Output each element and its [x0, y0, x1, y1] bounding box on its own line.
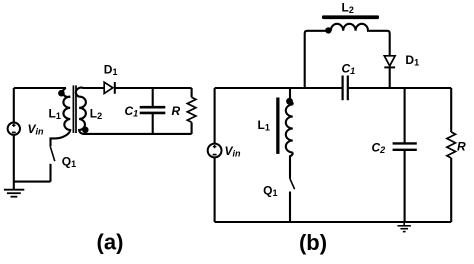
svg-text:R: R — [457, 140, 466, 154]
wire middle rail right of C1 (b) — [348, 87, 451, 89]
transformer primary winding L1 (a) — [51, 88, 71, 146]
wire bottom return from Q1 to ground node (a) — [14, 181, 51, 183]
polarity dot L1 (b) — [286, 98, 293, 105]
wire bottom rail (b) — [215, 221, 452, 223]
inductor L1 (b) — [286, 88, 293, 179]
source Vin (a) — [8, 88, 20, 190]
ground (b) — [398, 222, 411, 232]
capacitor C1 (b) — [343, 76, 348, 101]
svg-text:(b): (b) — [299, 230, 327, 255]
wire left side vertical (b) — [214, 88, 216, 143]
wire branch up to L2 (b) — [305, 31, 331, 88]
switch Q1 (a) — [50, 146, 55, 181]
source Vin (b) — [208, 144, 222, 222]
capacitor C2 (b) — [393, 88, 417, 222]
switch Q1 (b) — [290, 179, 295, 222]
svg-text:(a): (a) — [97, 230, 124, 255]
polarity dot L1 (a) — [58, 90, 65, 97]
resistor R (b) — [447, 88, 456, 222]
transformer secondary winding L2 (a) — [76, 88, 104, 134]
wire bottom rail of output section (a) — [88, 133, 192, 135]
transformer core (a) — [73, 85, 76, 133]
diode D1 (a) — [104, 82, 115, 94]
resistor R (a) — [187, 88, 196, 134]
svg-text:R: R — [172, 104, 181, 118]
polarity dot L2 (a) — [82, 127, 89, 134]
inductor L2 (b) — [331, 24, 390, 56]
diode D1 (b) — [384, 56, 395, 88]
capacitor C1 (a) — [140, 88, 166, 134]
polarity dot L2 (b) — [325, 27, 331, 33]
wire middle rail left of C1 (b) — [215, 87, 343, 89]
ground (a) — [4, 190, 24, 197]
core bar of L1 (b) — [276, 98, 279, 154]
wire top rail right of diode (a) — [115, 87, 192, 89]
wire top rail left (a) — [14, 87, 66, 89]
core bar of L2 (b) — [322, 15, 379, 19]
